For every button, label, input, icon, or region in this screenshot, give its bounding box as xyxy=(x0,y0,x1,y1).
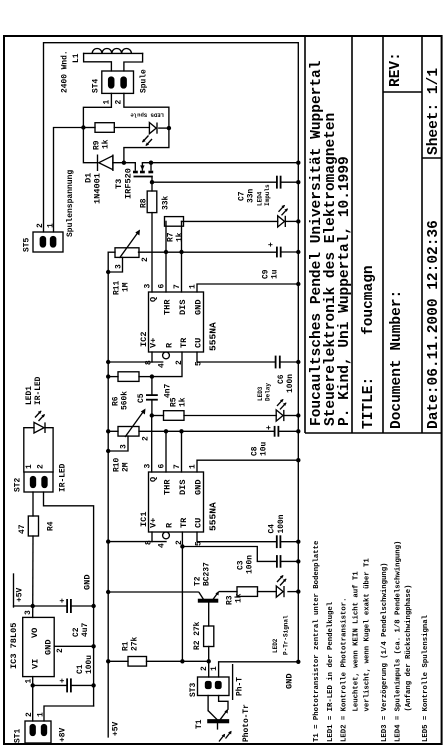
node IC2 DIS col xyxy=(179,250,183,254)
svg-text:ST4: ST4 xyxy=(92,79,101,93)
capacitor C5 xyxy=(146,399,158,401)
svg-text:Ph-T: Ph-T xyxy=(236,677,245,696)
wire IC2 V+ drop xyxy=(108,361,163,363)
node IC2 THR col xyxy=(164,250,168,254)
svg-text:GND: GND xyxy=(83,575,93,590)
svg-text:GND: GND xyxy=(285,674,295,689)
svg-text:C4: C4 xyxy=(268,524,277,534)
svg-text:100n: 100n xyxy=(246,555,255,574)
wire IC2 Q to R8 xyxy=(151,213,153,292)
svg-text:6: 6 xyxy=(158,464,167,469)
wire R10 bottom column to C8 xyxy=(139,430,275,432)
svg-text:100n: 100n xyxy=(286,374,295,393)
capacitor C3 xyxy=(276,555,278,568)
svg-text:1: 1 xyxy=(103,100,112,105)
connector ST4 xyxy=(102,71,134,93)
resistor R2 xyxy=(204,626,214,647)
svg-text:1: 1 xyxy=(189,284,198,289)
wire R11 bottom column to C9 xyxy=(139,251,277,253)
svg-text:Delay: Delay xyxy=(265,383,272,401)
svg-text:T1 = Phototransistor zentral u: T1 = Phototransistor zentral unter Boden… xyxy=(313,540,321,742)
svg-text:100n: 100n xyxy=(277,514,286,533)
wire +8V ST1 pin2 to IC3 xyxy=(32,677,34,721)
TITLEBLOCK xyxy=(305,36,442,433)
svg-text:2: 2 xyxy=(175,540,184,545)
connector ST3 xyxy=(198,677,230,696)
svg-text:IC1: IC1 xyxy=(139,512,149,527)
svg-text:foucmagn: foucmagn xyxy=(361,265,377,335)
svg-text:R: R xyxy=(165,342,175,348)
node ST3 R2 xyxy=(207,659,211,663)
node C2 gnd xyxy=(91,604,95,608)
svg-text:R7: R7 xyxy=(167,232,176,242)
svg-text:LED3: LED3 xyxy=(257,386,264,401)
wire R3 to LED2 xyxy=(258,591,277,593)
node IC1 THR col xyxy=(164,429,168,433)
svg-text:LED4 = Spulenimpuls (ca. 1/8 P: LED4 = Spulenimpuls (ca. 1/8 Pendelschwi… xyxy=(395,541,403,742)
svg-text:TR: TR xyxy=(179,517,189,528)
node R10 pin3 rail xyxy=(106,449,110,453)
net label Ph-T overline xyxy=(232,664,234,700)
svg-text:+: + xyxy=(59,598,68,603)
svg-text:1M: 1M xyxy=(122,282,131,292)
svg-text:VO: VO xyxy=(30,628,40,638)
svg-text:R: R xyxy=(165,522,175,528)
wire IC1 Q xyxy=(151,416,153,473)
transistor T1 xyxy=(208,720,229,723)
wire link to IC2 TR xyxy=(152,352,182,377)
svg-text:R8: R8 xyxy=(140,198,149,208)
wire R9 top xyxy=(83,127,95,129)
svg-text:+5V: +5V xyxy=(16,588,25,602)
LED LED3 xyxy=(276,410,283,421)
node C9 bus xyxy=(296,250,300,254)
timer IC2 555 xyxy=(149,292,204,352)
svg-text:C7: C7 xyxy=(238,191,247,201)
svg-text:P-Tr-Signal: P-Tr-Signal xyxy=(283,615,290,655)
svg-text:5: 5 xyxy=(195,361,204,366)
svg-text:(Anfang der Rückschwingphase): (Anfang der Rückschwingphase) xyxy=(405,585,413,712)
node TR R1 xyxy=(180,659,184,663)
svg-text:C3: C3 xyxy=(237,560,246,570)
wire R11 pin3 jog xyxy=(108,257,122,272)
svg-text:2: 2 xyxy=(175,360,184,365)
svg-text:THR: THR xyxy=(163,299,173,315)
svg-text:L1: L1 xyxy=(72,53,81,63)
node R6 C5 xyxy=(150,374,154,378)
base stub T1 xyxy=(217,723,219,730)
coil L1 base line xyxy=(84,52,143,54)
capacitor C2 xyxy=(66,599,68,613)
svg-text:DIS: DIS xyxy=(178,300,188,315)
svg-text:DIS: DIS xyxy=(178,480,188,495)
svg-text:7: 7 xyxy=(173,464,182,469)
wire R6 bottom xyxy=(139,376,152,378)
node bus end xyxy=(296,660,300,664)
svg-text:1: 1 xyxy=(189,464,198,469)
resistor R1 xyxy=(128,657,147,667)
svg-text:Document Number:: Document Number: xyxy=(389,290,405,429)
LED LED2 xyxy=(276,586,283,597)
svg-text:IRF520: IRF520 xyxy=(124,168,134,199)
wire IC2 gnd to bus xyxy=(197,284,298,292)
svg-text:V+: V+ xyxy=(149,338,159,348)
NOTES xyxy=(313,540,430,742)
wire C4 bottom xyxy=(280,541,298,543)
svg-text:2: 2 xyxy=(115,100,124,105)
svg-text:THR: THR xyxy=(163,479,173,495)
wire LED3 to bus xyxy=(284,415,298,417)
svg-text:C8: C8 xyxy=(251,446,260,456)
node IC3 gnd xyxy=(91,644,95,648)
connector ST5 xyxy=(33,232,63,252)
svg-text:C9: C9 xyxy=(262,269,271,279)
capacitor C8 xyxy=(274,426,276,437)
resistor R8 xyxy=(147,191,157,213)
svg-text:CU: CU xyxy=(194,518,204,528)
wire R6 top xyxy=(108,376,118,378)
node IC2 gnd bus xyxy=(296,282,300,286)
svg-text:CU: CU xyxy=(194,338,204,348)
svg-text:ST2: ST2 xyxy=(14,478,23,492)
svg-text:2: 2 xyxy=(37,464,46,469)
svg-text:4n7: 4n7 xyxy=(164,384,173,398)
svg-text:6: 6 xyxy=(158,284,167,289)
wire R5 top xyxy=(152,415,164,417)
svg-text:Date:06.11.2000 12:02:36: Date:06.11.2000 12:02:36 xyxy=(426,220,442,429)
resistor R6 xyxy=(118,372,139,382)
svg-text:LED1 = IR-LED in der Pendelkug: LED1 = IR-LED in der Pendelkugel xyxy=(327,601,335,742)
svg-text:1k: 1k xyxy=(102,139,111,149)
svg-text:LED3 = Verzögerung (1/4 Pendel: LED3 = Verzögerung (1/4 Pendelschwingung… xyxy=(381,562,389,742)
wire IC3 out xyxy=(32,536,34,617)
svg-text:4u7: 4u7 xyxy=(81,623,90,637)
capacitor C7 xyxy=(276,176,278,189)
wire LED4 top xyxy=(182,220,278,222)
node IC1 gnd bus xyxy=(296,458,300,462)
wire IC1 V+ drop xyxy=(108,541,166,543)
wire IC1 pin5 to C4 xyxy=(197,532,277,542)
svg-text:C2: C2 xyxy=(72,627,81,637)
node +5V out xyxy=(31,604,35,608)
wire LED5 cathode to drain xyxy=(124,128,169,163)
wire ST3 pin2 to R2 xyxy=(208,647,210,678)
svg-text:2400 Wnd.: 2400 Wnd. xyxy=(61,50,70,93)
svg-text:R2 27k: R2 27k xyxy=(193,621,202,650)
svg-text:R9: R9 xyxy=(93,140,102,150)
svg-text:+: + xyxy=(265,425,274,430)
wire R10 pin3 jog xyxy=(108,436,128,451)
svg-text:Sheet: 1/1: Sheet: 1/1 xyxy=(426,68,442,155)
svg-text:1: 1 xyxy=(47,223,56,228)
svg-text:1k: 1k xyxy=(235,593,244,603)
timer IC1 555 xyxy=(149,472,204,532)
capacitor C9 xyxy=(276,247,278,258)
svg-text:8: 8 xyxy=(145,540,154,545)
svg-text:3: 3 xyxy=(120,444,129,449)
wire T2 collector xyxy=(108,591,198,593)
capacitor C1 xyxy=(66,678,68,692)
node LED5 cathode xyxy=(167,126,171,130)
wire R9 to LED5 xyxy=(114,127,149,129)
inductor L1 xyxy=(92,48,131,53)
svg-text:C5: C5 xyxy=(137,393,146,403)
svg-text:2M: 2M xyxy=(122,462,131,472)
wire IC1 gnd to bus xyxy=(197,460,298,472)
wire IC1 THR xyxy=(165,431,167,472)
connector ST2 xyxy=(24,472,53,492)
LED LED4 xyxy=(278,216,285,227)
mosfet T3 xyxy=(134,176,153,178)
wire C9 bottom xyxy=(281,251,299,253)
svg-text:R3: R3 xyxy=(226,595,235,605)
svg-text:TITLE:: TITLE: xyxy=(361,377,377,429)
svg-text:3: 3 xyxy=(115,264,124,269)
svg-text:T1: T1 xyxy=(195,719,204,729)
svg-text:Leuchtet, wenn KEIN Licht auf: Leuchtet, wenn KEIN Licht auf T1 xyxy=(353,571,361,712)
svg-text:R11: R11 xyxy=(113,281,122,295)
node R6 rail xyxy=(106,374,110,378)
wire ST3 pin1 to gnd bus xyxy=(219,662,299,677)
svg-text:ST5: ST5 xyxy=(23,238,32,252)
svg-text:LED2: LED2 xyxy=(272,638,279,653)
svg-text:LED5 Spule: LED5 Spule xyxy=(130,112,164,119)
node C8 bus xyxy=(296,429,300,433)
node C7 bus xyxy=(296,180,300,184)
svg-text:C1: C1 xyxy=(76,664,85,674)
node C1/+8V xyxy=(31,683,35,687)
svg-text:2: 2 xyxy=(142,436,151,441)
node T3 source bus xyxy=(296,161,300,165)
svg-text:47: 47 xyxy=(18,524,27,534)
svg-text:IC3 78L05: IC3 78L05 xyxy=(9,623,19,669)
svg-text:Q: Q xyxy=(149,477,159,482)
diode D1 xyxy=(112,155,114,172)
svg-text:LED4: LED4 xyxy=(257,191,264,206)
wire C3 top jog to TR xyxy=(182,547,277,562)
resistor R5 xyxy=(164,411,185,421)
wire LED4 to bus xyxy=(286,220,299,222)
wire supply node to ST4 pin1 xyxy=(83,93,111,127)
LED LED5 xyxy=(149,123,156,134)
wire T2 emitter to R3 xyxy=(220,591,238,593)
node C4 bus xyxy=(296,540,300,544)
svg-text:IR-LED: IR-LED xyxy=(34,376,43,405)
svg-text:4: 4 xyxy=(158,363,167,368)
svg-text:ST1: ST1 xyxy=(14,729,23,743)
LED LED1 xyxy=(34,422,44,433)
node LED3 bus xyxy=(296,413,300,417)
node LED2 bus xyxy=(296,589,300,593)
pot R10 xyxy=(118,427,139,437)
svg-text:+: + xyxy=(59,678,68,683)
capacitor C4 xyxy=(276,535,278,548)
coil top end to ST4 pin1 xyxy=(84,53,112,71)
node R11 pin3 rail xyxy=(106,270,110,274)
svg-text:1k: 1k xyxy=(179,397,188,407)
transistor T2 xyxy=(199,599,218,602)
wire C6 bottom xyxy=(280,361,299,363)
svg-text:1: 1 xyxy=(210,666,219,671)
svg-text:P. Kind, Uni Wuppertal, 10.199: P. Kind, Uni Wuppertal, 10.1999 xyxy=(337,156,353,426)
coil bottom end to ST4 pin2 xyxy=(124,53,143,71)
wire IC1 TR xyxy=(181,532,183,661)
svg-text:Spule: Spule xyxy=(140,69,149,93)
svg-text:LED2 = Kontrolle Phototransist: LED2 = Kontrolle Phototransistor. xyxy=(341,597,349,742)
node LED4 bus xyxy=(296,219,300,223)
wire IC1 DIS xyxy=(181,431,183,472)
svg-text:555NA: 555NA xyxy=(208,322,219,351)
resistor R7 xyxy=(165,217,184,227)
wire C7 top xyxy=(152,181,277,183)
svg-text:1: 1 xyxy=(25,679,34,684)
svg-text:1: 1 xyxy=(25,464,34,469)
wire T3 source to bus xyxy=(142,162,298,164)
wire R11 top xyxy=(108,251,115,253)
wire R4 to ST2 xyxy=(32,492,34,516)
svg-text:2: 2 xyxy=(200,666,209,671)
svg-text:IC2: IC2 xyxy=(139,332,149,347)
svg-text:3: 3 xyxy=(144,284,153,289)
svg-text:+5V: +5V xyxy=(112,722,121,736)
+5V rail xyxy=(107,252,109,737)
wire T1 collector to ST3 pin2 xyxy=(207,696,209,711)
+5V net stub at IC3 xyxy=(14,605,33,607)
wire IC2 DIS xyxy=(181,221,183,292)
svg-text:GND: GND xyxy=(194,480,204,495)
wire R8 to T3 gate xyxy=(151,177,153,192)
svg-text:verlischt, wenn Kugel exakt üb: verlischt, wenn Kugel exakt über T1 xyxy=(364,558,372,712)
svg-text:33n: 33n xyxy=(247,189,256,203)
node IC1 DIS col xyxy=(179,429,183,433)
light arrows T1 xyxy=(219,735,225,742)
node R10 rail xyxy=(106,429,110,433)
wire IC2 THR xyxy=(165,221,167,292)
svg-text:4: 4 xyxy=(158,543,167,548)
gnd rail xyxy=(44,492,94,706)
svg-text:R10: R10 xyxy=(113,458,122,472)
wire C2 xyxy=(33,605,67,607)
wire R1 top xyxy=(108,660,128,662)
svg-text:1u: 1u xyxy=(271,269,280,279)
svg-text:2: 2 xyxy=(141,257,150,262)
wire C1 xyxy=(33,684,67,686)
svg-text:2: 2 xyxy=(56,648,65,653)
wire C3 bottom xyxy=(281,560,299,562)
svg-text:Q: Q xyxy=(149,297,159,302)
svg-text:R4: R4 xyxy=(47,521,56,531)
svg-text:R1: R1 xyxy=(122,641,131,651)
svg-text:+: + xyxy=(267,242,276,247)
node C1 gnd xyxy=(91,683,95,687)
svg-text:Spulenspannung: Spulenspannung xyxy=(66,170,75,237)
wire R10 top xyxy=(108,430,118,432)
svg-text:+8V: +8V xyxy=(59,728,68,742)
svg-text:R6: R6 xyxy=(112,396,121,406)
wire C5 right to R6 xyxy=(151,377,153,396)
svg-text:27k: 27k xyxy=(131,637,140,651)
wire R1 bottom to ST3 node xyxy=(147,660,209,662)
svg-text:8: 8 xyxy=(145,360,154,365)
wire R5 bottom to LED3 xyxy=(184,415,276,417)
wire ST4 pin2 to drain xyxy=(124,93,169,128)
title block outline xyxy=(305,432,442,434)
svg-text:1: 1 xyxy=(37,712,46,717)
svg-text:C6: C6 xyxy=(277,374,286,384)
regulator IC3 78L05 xyxy=(23,617,55,676)
svg-text:555NA: 555NA xyxy=(208,502,219,531)
svg-text:VI: VI xyxy=(31,659,41,669)
svg-text:ST3: ST3 xyxy=(189,683,198,697)
svg-text:1k: 1k xyxy=(176,232,185,242)
capacitor C6 xyxy=(275,356,277,369)
wire C7 bottom xyxy=(281,181,299,183)
wire IC2 pin5 to C6 xyxy=(197,352,276,362)
wire T3 drain xyxy=(113,162,135,164)
resistor R9 xyxy=(95,123,114,133)
resistor R4 xyxy=(28,516,38,536)
svg-text:3: 3 xyxy=(144,464,153,469)
wire D1 cathode to supply node xyxy=(83,128,97,163)
wire LED2 to bus xyxy=(288,591,298,593)
gnd bus xyxy=(44,43,299,662)
svg-text:REV:: REV: xyxy=(388,52,404,87)
svg-text:T3: T3 xyxy=(114,179,124,189)
connector ST1 xyxy=(25,721,51,743)
svg-text:2: 2 xyxy=(25,712,34,717)
svg-text:1N4001: 1N4001 xyxy=(93,173,103,204)
svg-text:100u: 100u xyxy=(85,655,94,674)
pot R11 xyxy=(115,248,139,258)
node IC2 V+ rail xyxy=(106,360,110,364)
svg-text:Impuls: Impuls xyxy=(264,184,271,206)
wire ST1 pin1 to gnd rail xyxy=(44,706,94,721)
SMALL LABELS xyxy=(9,50,295,743)
svg-text:5: 5 xyxy=(195,541,204,546)
node C7 gate xyxy=(150,180,154,184)
svg-text:GND: GND xyxy=(44,640,54,655)
node C3 bus xyxy=(296,559,300,563)
wire ST2 loop pin1 to LED1 xyxy=(24,428,34,472)
svg-text:TR: TR xyxy=(179,337,189,348)
node C6 bus xyxy=(296,360,300,364)
node R1 rail xyxy=(106,659,110,663)
svg-text:IR-LED: IR-LED xyxy=(59,463,68,492)
svg-text:10u: 10u xyxy=(260,442,269,456)
wire LED5 bottom xyxy=(159,127,169,129)
svg-text:V+: V+ xyxy=(149,518,159,528)
svg-text:Photo-Tr: Photo-Tr xyxy=(242,704,251,742)
svg-text:7: 7 xyxy=(173,284,182,289)
node supply xyxy=(81,125,85,129)
node T2 rail xyxy=(106,590,110,594)
svg-text:2: 2 xyxy=(36,223,45,228)
svg-text:T2: T2 xyxy=(194,576,203,586)
wire ST2 loop pin2 to LED1 xyxy=(45,428,53,472)
node T3 source lead xyxy=(149,161,153,165)
node IC1 V+ rail xyxy=(106,539,110,543)
svg-text:33k: 33k xyxy=(162,196,171,210)
wire IC3 gnd xyxy=(54,645,93,647)
svg-text:GND: GND xyxy=(194,300,204,315)
svg-text:BC237: BC237 xyxy=(203,562,212,586)
svg-text:560k: 560k xyxy=(121,391,130,410)
wire R2 to T2 base xyxy=(208,602,210,626)
wire ST3 pin1 to T1 emitter xyxy=(219,696,228,710)
node IC1 Q R5 xyxy=(150,413,154,417)
svg-text:LED1: LED1 xyxy=(25,386,34,405)
wire ST5 pin1 xyxy=(54,128,84,233)
